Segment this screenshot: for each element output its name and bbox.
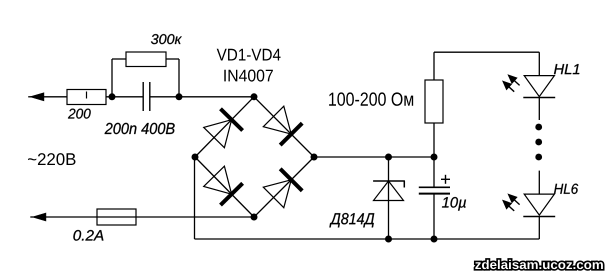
node right (bridge DC+) — [311, 154, 318, 161]
wire — [433, 194, 435, 239]
node junction — [176, 93, 183, 100]
node junction — [431, 236, 438, 243]
capacitor C1 200n 400B — [142, 82, 144, 111]
wire — [195, 157, 254, 217]
wire — [314, 156, 434, 158]
capacitor C2 10µ (polarized) — [419, 186, 450, 188]
wire — [254, 97, 314, 157]
resistor R1 200 — [67, 90, 106, 105]
mains input arrow (top line) — [30, 93, 44, 101]
wire — [46, 216, 255, 218]
wire — [538, 52, 540, 75]
wire — [112, 58, 126, 60]
wire — [195, 238, 540, 240]
wire — [194, 157, 196, 239]
node junction — [385, 236, 392, 243]
diode VD1 — [204, 120, 232, 148]
label HL6 — [554, 184, 578, 194]
watermark zdelaisam.ucoz.com — [475, 260, 603, 269]
ellipsis dot (HL2..HL5) — [535, 154, 542, 161]
wire — [433, 157, 435, 187]
diode VD3 — [204, 166, 232, 194]
node junction — [109, 93, 116, 100]
value label 0.2A — [73, 230, 103, 241]
label HL1 — [554, 64, 579, 74]
wire — [111, 59, 113, 97]
wire — [166, 58, 179, 60]
wire — [538, 171, 540, 195]
wire — [388, 157, 390, 239]
value label 10µ — [442, 197, 466, 211]
wire — [434, 51, 539, 53]
fuse FU1 0.2A — [97, 209, 136, 225]
ellipsis dot (HL2..HL5) — [535, 124, 542, 131]
LED HL6 — [524, 194, 554, 215]
diode VD2 — [263, 106, 291, 134]
value label 200n 400B — [105, 123, 175, 134]
wire — [195, 97, 254, 157]
node top (bridge AC in) — [251, 93, 258, 100]
label ~220В — [28, 153, 76, 165]
polarity + sign — [441, 178, 450, 180]
wire — [433, 52, 435, 80]
value label 200 — [68, 109, 91, 119]
mains input arrow (bottom line) — [32, 213, 46, 221]
node bottom (bridge AC in) — [251, 214, 258, 221]
resistor R2 300к — [126, 52, 166, 67]
diode VD4 — [263, 180, 291, 208]
node junction — [385, 154, 392, 161]
label 100-200 Ом — [329, 92, 413, 105]
wire — [106, 96, 143, 98]
value label Д814Д — [329, 213, 374, 227]
wire — [43, 96, 67, 98]
LED HL1 — [524, 76, 554, 97]
wire — [178, 59, 180, 97]
value label 300к — [151, 34, 182, 44]
wire — [538, 217, 540, 240]
node left (bridge DC-) — [192, 154, 199, 161]
resistor R3 100-200 Ом — [425, 80, 443, 123]
LED HL6 emission arrows — [503, 195, 519, 211]
wire — [538, 98, 540, 121]
wire — [254, 157, 314, 217]
node junction — [431, 154, 438, 161]
ellipsis dot (HL2..HL5) — [535, 139, 542, 146]
label IN4007 — [224, 70, 273, 82]
LED HL1 emission arrows — [503, 75, 519, 91]
zener diode VD5 Д814Д — [373, 180, 405, 182]
wire — [150, 96, 254, 98]
label VD1-VD4 — [217, 49, 281, 61]
wire — [433, 123, 435, 157]
